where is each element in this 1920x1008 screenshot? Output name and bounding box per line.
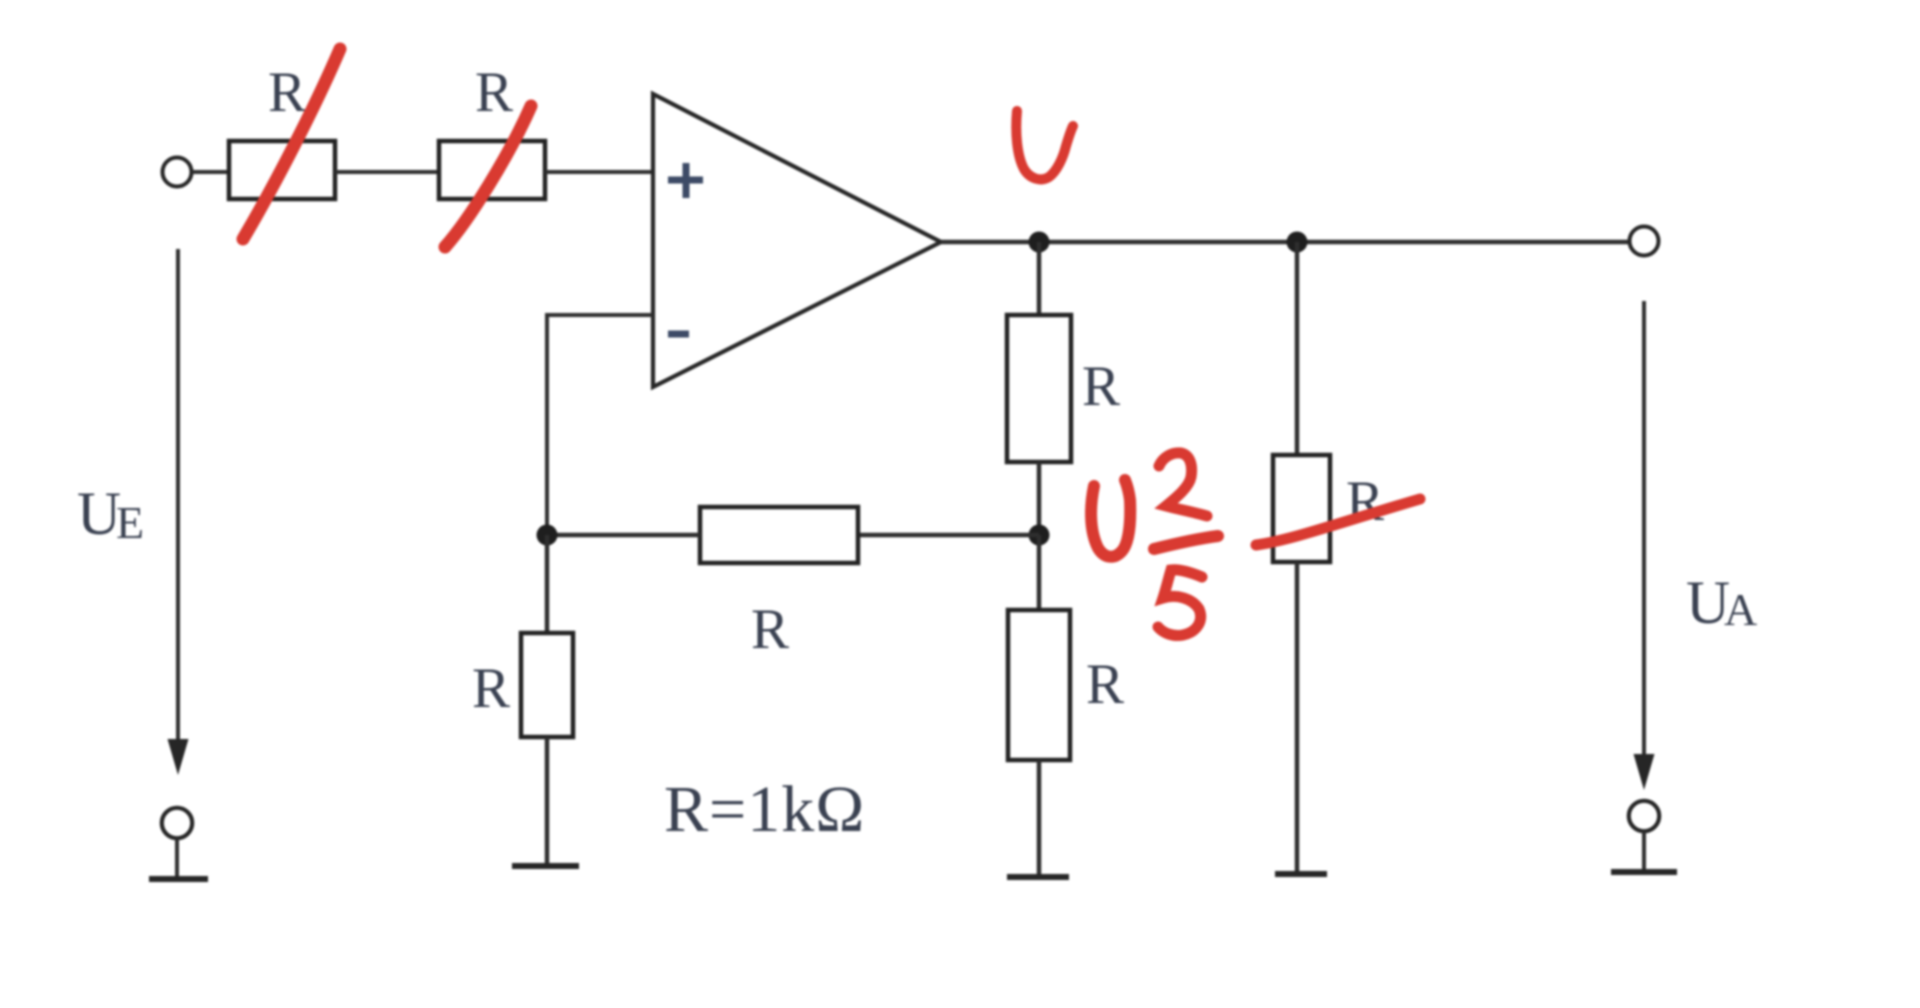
svg-text:R: R — [268, 61, 306, 124]
wire — [1037, 760, 1042, 875]
wire — [545, 170, 653, 174]
label R4 value R — [751, 598, 789, 661]
red strikethrough over R2 — [445, 106, 531, 247]
resistor R7 — [1273, 455, 1330, 562]
resistor R3 — [1007, 315, 1071, 462]
UA voltage arrow — [1634, 301, 1655, 790]
resistor R2 — [439, 141, 545, 199]
resistor R4 feedback — [700, 507, 858, 563]
output terminal — [1630, 227, 1659, 256]
svg-text:R: R — [475, 61, 513, 124]
input terminal — [163, 158, 192, 187]
wire — [1037, 535, 1042, 610]
terminal UA bottom — [1629, 801, 1659, 831]
wire — [547, 533, 700, 538]
label UE — [77, 481, 144, 548]
red handwritten U annotation — [1016, 111, 1073, 179]
terminal bar UA — [1611, 869, 1677, 875]
wire — [545, 737, 550, 864]
node (right branch) — [1287, 232, 1308, 253]
label R1 value R — [268, 61, 306, 124]
label R2 value R — [475, 61, 513, 124]
wire — [545, 535, 550, 633]
svg-text:E: E — [116, 497, 144, 548]
label UA — [1686, 570, 1757, 637]
svg-text:R: R — [1082, 355, 1120, 418]
wire — [1295, 242, 1300, 455]
label R6 value R — [1086, 653, 1124, 716]
label R=1kOhm — [664, 773, 865, 846]
svg-text:R=1kΩ: R=1kΩ — [664, 773, 865, 846]
label R7 value R — [1346, 470, 1384, 533]
ground R5 — [512, 863, 579, 869]
resistor R5 — [521, 633, 573, 737]
resistor R1 — [229, 141, 335, 199]
op-amp U1 — [653, 94, 941, 387]
op-amp minus input marker — [668, 331, 689, 338]
svg-text:U: U — [77, 481, 121, 548]
wire — [192, 170, 229, 174]
wire — [1295, 562, 1300, 871]
wire — [858, 533, 1039, 538]
svg-text:R: R — [751, 598, 789, 661]
ground R7 — [1275, 871, 1327, 877]
wire — [335, 170, 439, 174]
UE voltage arrow — [168, 249, 189, 775]
node U (output) — [1029, 232, 1050, 253]
wire — [1037, 462, 1042, 535]
red handwritten annotation U2/5 — [1091, 453, 1218, 636]
label R5 value R — [472, 657, 510, 720]
wire op-amp output — [941, 240, 1630, 245]
wire — [1642, 831, 1646, 870]
op-amp plus input marker — [668, 163, 703, 198]
wire — [1037, 242, 1042, 315]
svg-text:R: R — [472, 657, 510, 720]
wire inverting input — [547, 315, 653, 535]
resistor R6 — [1008, 610, 1070, 760]
wire — [175, 838, 179, 877]
terminal bar UE — [149, 876, 208, 882]
svg-text:R: R — [1086, 653, 1124, 716]
red strikethrough over R1 — [243, 49, 340, 239]
ground R6 — [1007, 874, 1069, 880]
label R3 value R — [1082, 355, 1120, 418]
node inverting input junction — [537, 525, 558, 546]
red strikethrough over R7 — [1256, 499, 1420, 545]
svg-text:A: A — [1724, 584, 1757, 635]
node feedback junction — [1029, 525, 1050, 546]
terminal UE bottom — [162, 808, 192, 838]
